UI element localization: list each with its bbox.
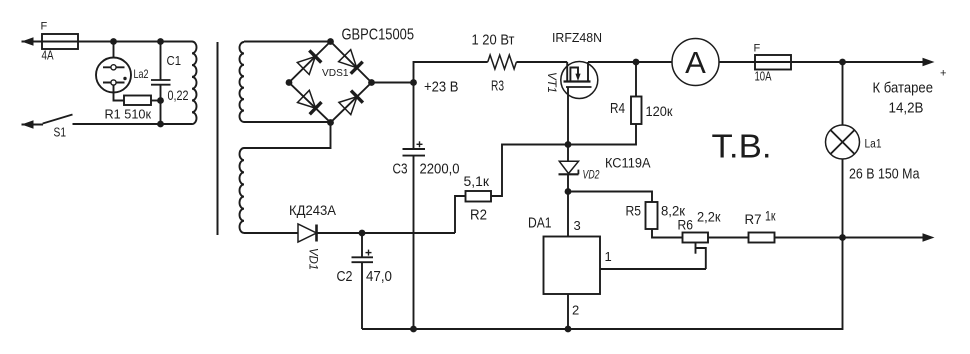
resistor R2 5,1к bbox=[491, 145, 568, 197]
ammeter A bbox=[672, 39, 719, 86]
svg-text:1к: 1к bbox=[765, 209, 776, 224]
node: VT1 gate junction bbox=[565, 141, 572, 148]
resistor R3 1 20 Вт (zigzag) bbox=[488, 55, 517, 69]
svg-text:R3: R3 bbox=[491, 79, 504, 95]
node: VD2 bottom junction bbox=[565, 188, 572, 195]
fuse F 10A bbox=[755, 55, 791, 70]
svg-text:КД243А: КД243А bbox=[289, 203, 336, 218]
wire: R6 to R7 bbox=[708, 237, 749, 239]
svg-text:2: 2 bbox=[572, 303, 579, 318]
node: bridge bottom corner bbox=[327, 119, 334, 126]
svg-text:R4: R4 bbox=[610, 101, 625, 117]
svg-text:1: 1 bbox=[605, 249, 612, 264]
svg-text:47,0: 47,0 bbox=[366, 269, 392, 285]
wire: secondary top to bridge bbox=[244, 41, 331, 43]
transistor VT1 IRFZ48N bbox=[561, 62, 598, 99]
capacitor C2 47,0 bbox=[361, 233, 363, 257]
wire: lower secondary to VD1 bbox=[244, 232, 298, 234]
svg-text:VDS1: VDS1 bbox=[322, 67, 349, 79]
svg-text:0,22: 0,22 bbox=[168, 87, 189, 103]
node: C1 bottom junction bbox=[157, 121, 164, 128]
svg-text:4A: 4A bbox=[42, 49, 55, 63]
svg-text:10A: 10A bbox=[755, 70, 772, 84]
bridge rectifier VDS1 GBPC15005 bbox=[289, 42, 372, 123]
wire: VD1 node to R2 bbox=[362, 232, 455, 234]
wire: VT1 source to ammeter bbox=[588, 61, 672, 63]
zener diode VD2 КС119А bbox=[567, 145, 569, 162]
wire: secondary bottom to bridge bbox=[244, 121, 331, 123]
bridge diode top-right bbox=[339, 50, 357, 68]
node: C1 top junction bbox=[157, 38, 164, 45]
svg-text:1 20 Вт: 1 20 Вт bbox=[472, 33, 515, 49]
node: C3 bottom junction bbox=[410, 326, 417, 333]
node: output minus junction bbox=[839, 234, 846, 241]
wire: bottom mains line bbox=[73, 123, 193, 125]
svg-text:14,2В: 14,2В bbox=[889, 101, 924, 117]
svg-text:La1: La1 bbox=[865, 139, 882, 151]
neon lamp La2 bbox=[113, 42, 115, 65]
node: pin 2 bottom junction bbox=[565, 326, 572, 333]
potentiometer R6 2,2к bbox=[683, 233, 709, 243]
transformer primary winding bbox=[192, 42, 197, 125]
node +23 В bbox=[410, 79, 417, 86]
svg-text:К батарее: К батарее bbox=[873, 81, 934, 97]
svg-text:F: F bbox=[41, 21, 48, 33]
svg-text:F: F bbox=[754, 43, 761, 55]
svg-text:S1: S1 bbox=[54, 126, 67, 140]
bridge diode bottom-right bbox=[339, 97, 357, 115]
svg-text:КС119А: КС119А bbox=[605, 156, 651, 171]
svg-text:2200,0: 2200,0 bbox=[420, 162, 460, 178]
node: VD1/C2 junction bbox=[359, 230, 366, 237]
wire: pin 1 bbox=[600, 268, 706, 270]
resistor R1 510к bbox=[151, 100, 161, 102]
capacitor C1 0,22 bbox=[160, 42, 162, 80]
svg-text:VD2: VD2 bbox=[583, 170, 600, 182]
svg-text:+: + bbox=[940, 68, 946, 80]
resistor R5 8,2к bbox=[568, 192, 652, 203]
node: lamp La1 top junction bbox=[839, 59, 846, 66]
lamp La1 26 В 150 Ма bbox=[842, 62, 844, 125]
IC DA1 bbox=[544, 237, 601, 295]
svg-text:R1 510к: R1 510к bbox=[105, 107, 152, 122]
wire: to battery plus bbox=[843, 61, 929, 63]
svg-text:IRFZ48N: IRFZ48N bbox=[552, 30, 602, 45]
fuse F 4A bbox=[42, 34, 78, 49]
svg-text:C1: C1 bbox=[167, 54, 182, 68]
wire: R3 to VT1 drain bbox=[516, 61, 567, 63]
wire: bridge bottom to lower secondary bbox=[244, 123, 331, 149]
node: bridge left corner bbox=[286, 79, 293, 86]
wire: bridge output to +23V node bbox=[372, 82, 414, 84]
wire: bottom rail bbox=[362, 238, 843, 330]
node: bridge right corner bbox=[368, 79, 375, 86]
transformer secondary winding (upper) bbox=[239, 42, 244, 122]
svg-text:GBPC15005: GBPC15005 bbox=[342, 27, 415, 44]
diode VD1 КД243А bbox=[298, 224, 317, 242]
wire: pin 3 bbox=[567, 192, 569, 237]
svg-text:R7: R7 bbox=[745, 211, 762, 227]
capacitor C3 2200,0 bbox=[413, 83, 415, 149]
svg-text:26 В 150 Ма: 26 В 150 Ма bbox=[849, 167, 920, 183]
svg-text:VD1: VD1 bbox=[307, 248, 319, 270]
svg-text:2,2к: 2,2к bbox=[697, 209, 721, 225]
wire: ammeter to fuse bbox=[719, 61, 843, 63]
node: R4 top junction bbox=[633, 59, 640, 66]
svg-text:VT1: VT1 bbox=[545, 72, 557, 93]
switch S1 bbox=[22, 120, 34, 128]
node: R1/C1 junction bbox=[157, 97, 164, 104]
node: bridge top corner bbox=[327, 38, 334, 45]
svg-text:Т.В.: Т.В. bbox=[712, 128, 772, 165]
bridge diode bottom-left bbox=[298, 90, 316, 108]
svg-text:С3: С3 bbox=[393, 162, 408, 178]
svg-text:120к: 120к bbox=[646, 103, 674, 119]
transformer core bbox=[217, 42, 219, 235]
svg-text:R2: R2 bbox=[470, 208, 487, 224]
svg-text:La2: La2 bbox=[134, 67, 149, 81]
wire: pin 2 bbox=[567, 294, 569, 329]
resistor R7 1к bbox=[749, 233, 775, 243]
wire: +23V riser to top rail bbox=[414, 62, 488, 83]
node: La2 top junction bbox=[110, 38, 117, 45]
transformer secondary winding (lower) bbox=[240, 148, 245, 233]
svg-text:DA1: DA1 bbox=[528, 216, 552, 232]
svg-text:R6: R6 bbox=[678, 217, 694, 233]
svg-text:C2: C2 bbox=[337, 269, 353, 285]
svg-text:3: 3 bbox=[574, 218, 581, 233]
svg-text:R5: R5 bbox=[626, 203, 642, 219]
svg-text:A: A bbox=[685, 45, 706, 80]
wire: R7 to output minus bbox=[775, 237, 929, 239]
wire: mains top line bbox=[22, 37, 34, 45]
svg-text:+23 В: +23 В bbox=[424, 79, 459, 96]
bridge diode top-left bbox=[297, 57, 315, 75]
svg-text:5,1к: 5,1к bbox=[464, 173, 490, 189]
